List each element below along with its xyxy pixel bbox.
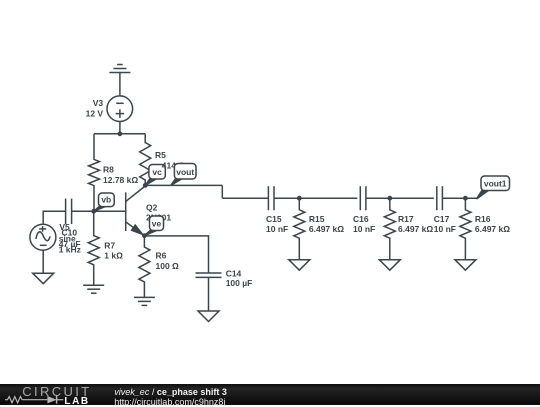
label C16 value [353, 214, 375, 234]
svg-text:vb: vb [101, 194, 111, 204]
label R7 value [104, 240, 123, 260]
svg-text:V3: V3 [93, 98, 104, 108]
ground (R6 hatch) [134, 297, 155, 305]
svg-text:1 kHz: 1 kHz [59, 244, 81, 254]
capacitor C14 [196, 273, 222, 277]
label C15 value [266, 214, 288, 234]
label R5 value 414 [162, 161, 186, 171]
node collector vc [143, 183, 148, 188]
capacitor C16 [360, 186, 366, 210]
svg-text:C16: C16 [353, 214, 369, 224]
svg-text:Q2: Q2 [146, 202, 158, 212]
ground (R16 triangle) [455, 260, 476, 271]
node R17 [387, 196, 392, 201]
node R15 [297, 196, 302, 201]
svg-text:6.497 kΩ: 6.497 kΩ [475, 224, 510, 234]
wire: collector rail [145, 184, 222, 186]
svg-text:12 V: 12 V [86, 109, 104, 119]
svg-text:ve: ve [152, 218, 162, 228]
flag ve [144, 216, 163, 236]
ground (V3 top, inverted hatch) [109, 65, 130, 73]
wire: emitter to C14 [144, 236, 208, 273]
flag vc [145, 165, 165, 186]
ground (V5 triangle) [33, 273, 54, 284]
node vout1 [463, 196, 468, 201]
wire: base [72, 210, 126, 212]
capacitor C10 [66, 199, 72, 224]
source V5 (sine) [30, 224, 56, 250]
resistor R16 [460, 198, 471, 260]
voltage source V3 [107, 96, 133, 122]
ground (R17 triangle) [379, 260, 400, 271]
schematic title [114, 388, 227, 397]
flag vb [94, 193, 115, 211]
svg-text:10 nF: 10 nF [353, 224, 375, 234]
flag vout1 [477, 176, 510, 199]
svg-text:C15: C15 [266, 214, 282, 224]
CircuitLab logo symbol (resistor + diode) [5, 395, 67, 405]
label V3 value [86, 98, 104, 119]
capacitor C17 [437, 186, 443, 210]
label C14 value [226, 268, 253, 288]
label R16 value [475, 214, 510, 234]
node vb [91, 209, 96, 214]
label R5 value [155, 150, 166, 160]
label R17 value [398, 214, 433, 234]
wire: step down [221, 185, 223, 198]
wire: V3 to rail [119, 121, 121, 133]
svg-text:vout1: vout1 [484, 178, 507, 188]
svg-text:C14: C14 [226, 268, 242, 278]
svg-text:1 kΩ: 1 kΩ [104, 250, 123, 260]
wire: V3 to ground [119, 73, 121, 96]
CircuitLab logo text CIRCUIT [22, 385, 91, 398]
wire: C17 to vout1 node [443, 197, 478, 199]
svg-text:vout: vout [176, 167, 194, 177]
resistor R6 [139, 236, 150, 298]
wire: C15 to R15 node [274, 197, 299, 199]
svg-text:100 µF: 100 µF [226, 278, 253, 288]
CircuitLab logo text LAB [64, 397, 89, 407]
svg-text:R8: R8 [103, 164, 114, 174]
resistor R5 [140, 134, 151, 186]
labels V5 and C10 (overlapping) [59, 222, 81, 254]
wire: V5 to ground [42, 251, 44, 274]
svg-text:10 nF: 10 nF [434, 224, 456, 234]
svg-text:vc: vc [152, 167, 162, 177]
wire: C16 to R17 node [366, 197, 390, 199]
svg-text:100 Ω: 100 Ω [156, 261, 180, 271]
svg-text:R6: R6 [156, 251, 167, 261]
flag vout [171, 164, 196, 186]
svg-text:C17: C17 [434, 214, 450, 224]
label R15 value [309, 214, 344, 234]
wire: V5 to C10 [43, 211, 65, 224]
node: rail junction [118, 131, 123, 136]
svg-text:R16: R16 [475, 214, 491, 224]
schematic url [114, 398, 225, 407]
wire: to C15 [222, 197, 268, 199]
svg-text:6.497 kΩ: 6.497 kΩ [398, 224, 433, 234]
svg-text:10 nF: 10 nF [266, 224, 288, 234]
capacitor C15 [268, 186, 274, 210]
resistor R8 [89, 134, 100, 212]
ground (R7 hatch) [83, 285, 104, 293]
svg-text:R15: R15 [309, 214, 325, 224]
wire: node to C17 [390, 197, 434, 199]
svg-text:R5: R5 [155, 150, 166, 160]
resistor R17 [384, 198, 395, 260]
ground (R15 triangle) [289, 260, 310, 271]
label Q2 value [146, 202, 171, 222]
ground (C14 triangle) [198, 311, 219, 322]
wire: top rail [94, 133, 145, 135]
transistor Q2 [126, 186, 146, 236]
node emitter ve [142, 233, 147, 238]
resistor R15 [294, 198, 305, 260]
svg-text:6.497 kΩ: 6.497 kΩ [309, 224, 344, 234]
svg-text:R7: R7 [104, 240, 115, 250]
svg-text:R17: R17 [398, 214, 414, 224]
label R6 value [156, 251, 180, 272]
wire: C14 to ground [208, 277, 210, 311]
wire: node to C16 [299, 197, 357, 199]
label C17 value [434, 214, 456, 234]
svg-text:12.78 kΩ: 12.78 kΩ [103, 175, 138, 185]
resistor R7 [88, 211, 99, 285]
label R8 value [103, 164, 138, 185]
